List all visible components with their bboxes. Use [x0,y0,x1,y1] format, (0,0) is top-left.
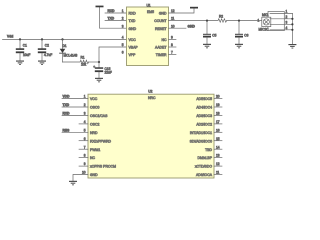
svg-text:2: 2 [286,15,288,19]
svg-text:16: 16 [216,128,220,132]
wire Vdd rail [3,38,127,40]
wire U1 pin10 stub with GND label [169,25,196,29]
wire U1 pin7 stub [169,54,177,56]
svg-text:RXD: RXD [108,9,116,13]
wire mic right rail [291,13,293,44]
svg-text:1: 1 [122,9,124,13]
svg-text:OSC0: OSC0 [90,106,99,110]
svg-text:GND: GND [129,27,137,31]
svg-text:R1: R1 [81,56,85,60]
svg-text:COUNT: COUNT [154,19,167,23]
svg-text:AD5/IOC5: AD5/IOC5 [196,97,212,101]
wire U1 pin3 to power bar [100,7,127,28]
svg-text:NRC: NRC [148,96,156,100]
svg-text:4: 4 [122,36,124,40]
svg-text:Vdd: Vdd [7,35,13,39]
svg-text:5: 5 [84,128,86,132]
wire U1 pin9 stub [169,38,177,40]
svg-text:TIMER: TIMER [156,53,167,57]
ground under C2 [38,61,46,66]
mic pin 1 wire [270,10,292,14]
svg-text:TXD: TXD [129,19,136,23]
node junction rail p3 [291,23,293,25]
svg-text:9: 9 [171,36,173,40]
wire U2 pin4 stub [79,123,88,125]
wire U2 pin10 to ground [73,175,88,181]
resistor R2 [218,15,227,23]
svg-text:12: 12 [171,9,175,13]
svg-text:VBAP: VBAP [129,46,139,50]
net label VDD wire U2 pin1 [62,95,88,99]
svg-text:NRD: NRD [90,131,98,135]
svg-text:C5: C5 [212,33,216,37]
svg-text:VCC: VCC [90,97,98,101]
node junction rail p2 [291,18,293,20]
U2 left pin labels [90,97,116,177]
net label TXD wire U1 pin2 [105,17,127,21]
wire U2 pin9 stub [79,165,88,167]
svg-text:13: 13 [216,154,220,158]
svg-text:D1: D1 [63,44,67,48]
svg-text:TBD: TBD [205,148,212,152]
svg-text:10: 10 [82,171,86,175]
U2 left pin numbers [82,95,86,175]
svg-text:AD6/IOCA: AD6/IOCA [196,173,213,177]
node junction C5 [206,20,208,22]
svg-text:3: 3 [286,20,288,24]
wire diode to R1 [63,61,80,63]
capacitor C1 [16,39,31,60]
ground under C5 [203,44,211,49]
wire R2 to mic [227,20,263,22]
node Vdd label [7,35,13,39]
wire R1 to junction [89,61,99,63]
svg-text:8: 8 [171,43,173,47]
node junction D1 on rail [61,38,63,40]
svg-text:VPP: VPP [129,53,137,57]
svg-text:3: 3 [122,24,124,28]
svg-text:U2: U2 [148,90,152,94]
svg-text:+: + [93,65,95,69]
op-amp U1 (IC box) [127,3,169,65]
svg-text:xOPP/S PROCM: xOPP/S PROCM [90,165,116,169]
svg-text:10: 10 [171,24,175,28]
svg-text:EM5: EM5 [147,10,154,14]
U1 right pin numbers [171,9,175,55]
svg-text:C2: C2 [45,43,49,47]
wire U1 pin11 to mic [169,20,218,22]
svg-text:4: 4 [84,120,86,124]
IC U2 box [88,90,214,178]
wire U1 pin12 to power bar right [169,8,195,13]
svg-text:C6: C6 [244,33,248,37]
svg-text:OSC2: OSC2 [90,123,99,127]
resistor R1 [80,56,89,67]
capacitor C6 [235,21,249,44]
svg-text:22uF: 22uF [105,71,112,75]
mic pin 4 wire [270,26,292,30]
svg-text:U1: U1 [147,3,151,7]
wire junction up to U1 pin5 [99,47,127,62]
svg-text:xCTD/SDO: xCTD/SDO [195,165,213,169]
svg-text:DM/xLBP: DM/xLBP [197,156,212,160]
svg-text:1: 1 [84,95,86,99]
svg-text:OSC1/CAS: OSC1/CAS [90,114,108,118]
svg-text:7: 7 [171,51,173,55]
svg-text:4.7uF: 4.7uF [44,53,52,57]
svg-text:5: 5 [122,43,124,47]
svg-text:17: 17 [216,120,220,124]
svg-text:AD4/IOC4: AD4/IOC4 [196,106,212,110]
node junction (99,62) [98,61,100,63]
svg-text:MK1: MK1 [262,13,269,17]
svg-text:NC: NC [162,38,167,42]
svg-text:TXD: TXD [108,17,115,21]
power bar left [96,6,104,8]
wire U1 pin8 stub [169,46,177,48]
ground mic rail [288,44,296,49]
diode D1 MCL4148 [60,39,78,62]
svg-text:TXD: TXD [63,103,70,107]
node junction C1 on rail [19,38,21,40]
svg-text:20: 20 [216,95,220,99]
node junction rail p4 [291,29,293,31]
svg-text:4: 4 [286,26,288,30]
svg-text:3: 3 [84,112,86,116]
svg-text:SDI/AD0/IOC0: SDI/AD0/IOC0 [190,139,212,143]
node junction C6 [238,20,240,22]
capacitor C15 polarized [93,62,112,78]
svg-text:6: 6 [84,137,86,141]
ground under C6 [235,44,243,49]
svg-text:18: 18 [216,112,220,116]
mic pin 2 wire [270,15,292,19]
svg-text:1: 1 [286,10,288,14]
svg-text:RXD: RXD [63,111,71,115]
U2 right pin stubs [214,99,222,175]
microphone jack MK1 [258,12,285,32]
svg-text:MCL4148: MCL4148 [64,54,78,58]
U1 left pin numbers [122,9,124,55]
svg-text:1: 1 [258,18,260,22]
capacitor C2 [38,39,52,60]
svg-text:NC: NC [90,156,95,160]
svg-text:8: 8 [84,154,86,158]
svg-text:RESET: RESET [155,27,167,31]
svg-text:12: 12 [216,162,220,166]
net label RES wire U2 pin5 [62,128,88,132]
ground U2 pin10 [69,181,77,185]
svg-text:PWM1: PWM1 [90,148,100,152]
svg-text:2: 2 [84,103,86,107]
svg-text:R2: R2 [219,15,223,19]
svg-text:INT/AD1/IOC1: INT/AD1/IOC1 [190,131,212,135]
node junction C2 on rail [41,38,43,40]
svg-text:19: 19 [216,103,220,107]
svg-text:AD2/IOC2: AD2/IOC2 [196,123,212,127]
svg-text:11: 11 [216,171,220,175]
svg-text:14: 14 [216,145,220,149]
net label RXD wire U1 pin1 [105,9,127,13]
svg-text:VCC: VCC [129,38,137,42]
mic pin 3 wire [270,20,292,24]
capacitor C5 [203,21,217,44]
svg-text:RXD/PPWRD: RXD/PPWRD [90,139,112,143]
svg-text:10k: 10k [81,63,87,67]
svg-text:GND: GND [90,173,98,177]
U1 right pin labels [154,12,167,58]
power bar right [190,7,198,9]
U1 left pin labels [129,12,139,58]
svg-text:RXD: RXD [129,12,137,16]
svg-text:C1: C1 [23,43,27,47]
svg-text:15: 15 [216,137,220,141]
U2 right pin numbers [216,95,220,175]
svg-text:RES: RES [63,128,71,132]
svg-text:7: 7 [84,145,86,149]
ground under C15 [95,78,103,83]
ground under C1 [16,61,24,66]
svg-text:6: 6 [122,51,124,55]
U2 right pin labels [190,97,213,177]
svg-text:VDD: VDD [63,95,71,99]
svg-text:9: 9 [84,162,86,166]
net label RXD wire U2 pin3 [62,111,88,115]
wire U2 pin8 stub [79,157,88,159]
svg-text:11: 11 [171,17,175,21]
wire U2 pin6 stub [79,140,88,142]
svg-text:2: 2 [122,17,124,21]
net label TXD wire U2 pin2 [62,103,88,107]
svg-text:GND: GND [188,25,196,29]
svg-text:GND: GND [159,12,167,16]
svg-text:AADET: AADET [155,46,167,50]
svg-text:10uF: 10uF [23,53,30,57]
wire U2 pin7 stub [79,148,88,150]
svg-text:MIC2C: MIC2C [259,27,270,31]
svg-text:AD3/IOC3: AD3/IOC3 [196,114,212,118]
